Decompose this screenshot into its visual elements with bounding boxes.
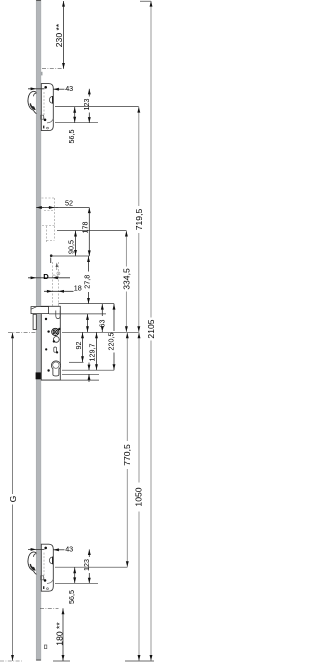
svg-text:90,5: 90,5 [67,240,76,254]
extension line cylinder axis y370.2 [62,369,114,371]
case bottom extension y380.1 [41,379,99,381]
centerline top hook pivot [42,68,65,70]
dimension 220.5 line [113,304,115,331]
extension line hook lower hole [55,122,98,124]
dimension 180 line [62,608,64,661]
svg-text:123: 123 [82,559,91,571]
svg-text:178: 178 [81,222,90,234]
svg-text:43: 43 [65,84,73,93]
svg-text:2105: 2105 [146,319,154,338]
centerline bottom y608 [40,607,59,609]
bottom reference line right [125,660,154,662]
extension line follower axis [62,331,139,333]
profile cylinder hole [51,361,60,376]
svg-text:770,5: 770,5 [122,444,132,466]
follower right dot [58,328,60,330]
svg-text:43: 43 [65,545,73,554]
extension line hook pivot axis [55,106,139,108]
dimension 52 line [36,207,89,209]
screw hole lower [44,119,47,122]
spring axle circle [53,337,59,343]
svg-text:27,8: 27,8 [83,275,92,289]
dimension 129.7 line [96,332,98,370]
svg-text:56,5: 56,5 [67,130,76,144]
svg-text:63: 63 [98,320,107,328]
deadbolt [33,314,36,329]
main case body [41,306,60,380]
dimension 230 line [63,1,65,69]
bar top edge [36,0,41,2]
dimension 90.5 line [75,231,77,257]
dimension 123 bottom line [88,549,90,557]
svg-text:92: 92 [74,342,83,350]
dimension 334.5 line [125,231,127,267]
inner corner arc [47,119,53,123]
svg-text:D: D [43,272,49,281]
extension line hook2 pivot axis [55,566,127,568]
follower spring cutout [56,311,60,319]
faceplate bar [36,0,41,660]
follower hub [52,328,59,335]
centerline follower left [8,331,36,333]
dimension 770.5 line [126,332,128,441]
top reference line right [140,0,151,2]
dimension 2105 line [150,1,152,318]
svg-text:18: 18 [74,284,82,293]
svg-text:52: 52 [65,199,73,208]
dimension 123 line [88,89,90,97]
svg-text:719,5: 719,5 [134,209,144,231]
small marks bottom of case [43,126,44,129]
svg-text:230 **: 230 ** [54,23,64,47]
hook pivot boss [49,96,52,103]
extension line cam axis [57,230,126,232]
bottom reference line mid [53,660,70,662]
extension line y303.6 [59,303,115,305]
tiny detail glyphs near cylinder axis [53,275,58,277]
extension line y257 [52,255,89,257]
svg-text:180 **: 180 ** [55,622,65,646]
dimension 43 (top) line left stub [28,88,45,90]
hook claw [28,91,36,110]
svg-text:129,7: 129,7 [88,344,97,362]
hidden cam outline upper [42,197,55,199]
dimension 43 (top) line right part [53,88,64,90]
extension line hook2 lower hole [55,582,98,584]
latch bolt [31,307,49,314]
dimension 56.5 bottom line [74,567,76,583]
dimension 27.8 line [88,256,90,272]
svg-text:220,5: 220,5 [107,333,116,351]
svg-text:56,5: 56,5 [67,590,76,604]
bottom reference line left (dash-dot) [0,660,22,662]
dimension 92 line [82,332,84,362]
case screw hole upper [45,318,47,320]
dimension 1050 line [138,332,140,482]
extension line cylinder bottom y374.3 [62,373,99,375]
cylinder dot [47,369,49,371]
hook lock case [41,84,53,131]
dot at ext end [50,254,53,257]
svg-text:334,5: 334,5 [122,268,132,290]
bar bottom edge [36,659,41,661]
small mark near bar bottom [44,645,46,649]
svg-text:123: 123 [82,99,91,111]
dimension 43 bottom line left stub [28,548,45,550]
dimension G line [12,332,14,494]
dimension D line [28,277,70,279]
dimension 56.5 line [74,107,76,123]
bar nub [41,72,43,76]
dimension 178 line [88,208,90,257]
svg-text:G: G [8,496,18,503]
hidden edge mark [50,258,52,264]
dimension short line x87.5 [87,314,89,332]
extension line latch bottom y313.9 [49,313,106,315]
centerline cam [40,207,58,209]
cylinder screw slot [54,347,57,352]
follower left dot [47,330,49,332]
dimension 719.5 line [138,107,140,206]
outside arrow pair at x89 cylinder region [88,363,90,371]
dimension 63 line [101,304,103,316]
screw hole top [44,86,47,89]
dimension 43 bottom line right part [53,549,64,551]
svg-text:1050: 1050 [134,487,144,506]
extension line y362.3 [69,361,84,363]
hidden axis lines cylinder/follower [51,262,53,306]
fixing block on faceplate [36,372,41,379]
dimension 18 line [44,290,74,292]
hidden edge in case [43,92,45,120]
small plate outline [41,115,44,119]
